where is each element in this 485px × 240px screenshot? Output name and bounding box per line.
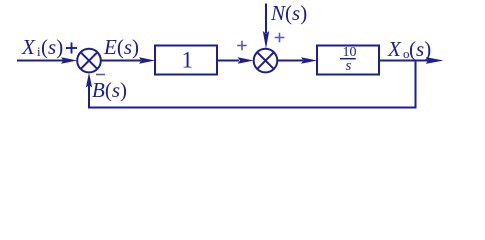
- svg-text:X: X: [21, 35, 36, 59]
- wire feedback bottom horizontal: [88, 107, 417, 109]
- svg-text:1: 1: [182, 48, 194, 73]
- wire junction2 to block2: [277, 57, 317, 64]
- node plus sign left of summing junction 2: [237, 41, 247, 51]
- wire feedback tap vertical: [415, 61, 417, 109]
- svg-text:s: s: [346, 58, 352, 74]
- wire N(s) input to junction 2: [263, 4, 269, 49]
- node plus sign top-right of summing junction 2: [275, 33, 285, 43]
- node Xo(s) output label: [387, 37, 431, 61]
- wire block1 to junction2: [217, 57, 254, 64]
- node minus sign at summing junction 1: [96, 74, 105, 76]
- block gain 1: [155, 46, 217, 75]
- summing junction 2: [254, 49, 278, 73]
- svg-text:X: X: [387, 37, 402, 61]
- node Xi(s) input label: [21, 35, 63, 59]
- svg-text:(s): (s): [409, 37, 431, 61]
- svg-text:B(s): B(s): [92, 78, 127, 102]
- svg-text:(s): (s): [41, 35, 63, 59]
- wire feedback vertical up to junction 1: [86, 73, 92, 108]
- wire input line: [17, 57, 77, 64]
- svg-text:N(s): N(s): [270, 1, 307, 25]
- node plus sign at summing junction 1: [66, 43, 77, 54]
- wire junction1 to block1: [101, 57, 155, 64]
- block transfer function 10/s: [317, 45, 379, 74]
- wire output line: [379, 57, 444, 64]
- svg-text:E(s): E(s): [103, 35, 139, 59]
- summing junction 1: [77, 49, 101, 73]
